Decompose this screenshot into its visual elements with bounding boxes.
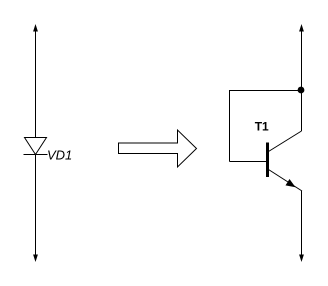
- svg-text:T1: T1: [255, 120, 269, 134]
- svg-text:VD1: VD1: [47, 148, 72, 163]
